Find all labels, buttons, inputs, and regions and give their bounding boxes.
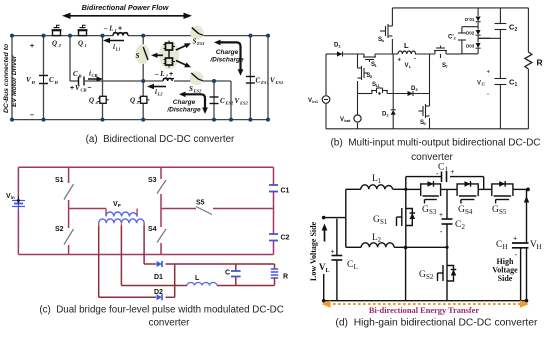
switch S3 S4 branch wire: [160, 167, 162, 254]
label S1: [371, 62, 378, 68]
transformer secondary: [99, 219, 144, 227]
svg-text:L2: L2: [157, 92, 164, 97]
svg-text:+: +: [451, 168, 455, 176]
svg-text:+: +: [169, 71, 173, 78]
label D'01: [465, 17, 475, 22]
diode D3: [408, 91, 414, 96]
svg-text:D'01: D'01: [465, 17, 475, 22]
switch S1: [64, 184, 74, 200]
transistor Q1: [78, 25, 88, 35]
label Charge/Discharge 2: [166, 99, 201, 114]
transistor Sb: [380, 24, 392, 38]
label SES1: [193, 38, 205, 47]
svg-text:2: 2: [378, 236, 382, 244]
svg-text:S1: S1: [380, 218, 388, 226]
label -L1+: [103, 25, 122, 34]
source Vbat: [354, 115, 361, 122]
wire secondary tap left: [98, 226, 100, 297]
svg-text:C: C: [220, 97, 225, 105]
label S3: [148, 177, 157, 184]
svg-text:–: –: [88, 85, 92, 92]
svg-text:H: H: [31, 80, 36, 85]
energy storage cell top: [164, 41, 176, 51]
wire right rail c: [273, 167, 275, 254]
svg-text:Bidirectional Power Flow: Bidirectional Power Flow: [82, 3, 170, 12]
diode D03: [476, 43, 481, 48]
label C2 d: [439, 211, 466, 236]
svg-text:C: C: [49, 76, 54, 84]
wire C'2 box: [462, 27, 478, 54]
label iL1: [113, 43, 121, 52]
caption (b): [330, 138, 540, 164]
wire left rail d: [323, 274, 325, 301]
transistor GS4: [457, 181, 478, 203]
current arrow iL1: [103, 38, 124, 43]
svg-text:C: C: [256, 77, 261, 85]
resistor R b: [525, 8, 532, 129]
wire S11 D3 rail: [358, 93, 430, 95]
svg-text:+: +: [398, 58, 402, 64]
node dots bottom rail: [10, 118, 270, 122]
svg-text:-: -: [414, 57, 416, 63]
svg-text:2: 2: [462, 223, 466, 231]
diode D'01: [476, 17, 481, 22]
svg-text:Q: Q: [130, 97, 135, 105]
svg-text:converter: converter: [411, 152, 453, 163]
svg-text:D02: D02: [466, 31, 475, 36]
label S5: [196, 200, 205, 207]
transistor GS2: [438, 262, 457, 284]
transistor Q3 branch wire: [142, 36, 144, 120]
svg-text:G: G: [419, 270, 426, 280]
svg-text:Side: Side: [498, 274, 513, 283]
minus mark Vc: [487, 92, 489, 98]
label Low Voltage Side: [309, 221, 318, 281]
svg-text:+: +: [118, 26, 122, 33]
transistor Q3: [139, 96, 150, 103]
charge discharge arrow 2: [179, 92, 208, 115]
capacitor CL branch: [336, 219, 338, 301]
wire bottom rail: [12, 119, 268, 121]
inductor L1: [113, 33, 128, 36]
svg-text:converter: converter: [149, 318, 191, 329]
svg-text:D1: D1: [154, 274, 163, 281]
label VP: [113, 201, 121, 208]
svg-text:L: L: [404, 41, 409, 50]
svg-text:/Discharge: /Discharge: [209, 57, 244, 64]
label Q4: [89, 97, 99, 106]
svg-text:(c) Dual bridge four-level pu: (c) Dual bridge four-level pulse width m…: [39, 305, 283, 316]
svg-text:C: C: [73, 70, 78, 78]
svg-text:bat: bat: [344, 118, 351, 123]
capacitor CES1: [246, 77, 255, 84]
label VES1: [270, 77, 283, 86]
label R c: [283, 274, 288, 281]
svg-text:L: L: [326, 268, 330, 274]
svg-text:L: L: [195, 275, 200, 282]
label C1 c: [281, 188, 290, 195]
svg-text:CB: CB: [81, 88, 87, 93]
svg-text:C1: C1: [281, 188, 290, 195]
wire secondary tap right: [143, 226, 145, 264]
arrow VL: [322, 224, 328, 242]
wire input vertical d: [345, 189, 347, 247]
svg-text:Q: Q: [52, 40, 57, 48]
arrow storage to SES1: [176, 43, 191, 50]
svg-text:EV Motor Driver: EV Motor Driver: [11, 55, 18, 107]
wire D2 line: [99, 296, 175, 298]
capacitor C2 b: [495, 24, 507, 30]
arrow VH: [524, 196, 529, 203]
label GS3: [422, 205, 437, 216]
wire vertical D1 D2 junction: [174, 264, 176, 297]
svg-text:Bi-directional Energy Transfer: Bi-directional Energy Transfer: [369, 306, 480, 315]
capacitor C2 d: [442, 219, 453, 224]
node dots d: [322, 188, 530, 303]
svg-text:1: 1: [378, 177, 382, 185]
caption (d): [335, 318, 538, 329]
label S7: [442, 63, 449, 69]
label Q3: [130, 97, 140, 106]
svg-text:G: G: [492, 205, 499, 215]
label Vc: [477, 81, 486, 87]
wire right rail d: [526, 189, 528, 300]
svg-text:H: H: [503, 243, 508, 251]
label C'2: [448, 35, 457, 41]
svg-text:in1: in1: [312, 99, 319, 104]
wire left rail: [11, 36, 13, 120]
svg-text:S4: S4: [465, 208, 473, 216]
transformer primary: [106, 209, 137, 217]
svg-text:P: P: [118, 203, 121, 208]
capacitor CH branch wire: [43, 36, 45, 120]
charge discharge arrow 1: [214, 40, 243, 76]
wire top rail c: [18, 166, 273, 168]
wire D1 line: [144, 263, 274, 265]
transistor S7: [434, 46, 447, 59]
capacitor CB: [79, 77, 85, 86]
wire C2 GS2 branch: [446, 189, 448, 300]
label Bi-directional Energy Transfer: [369, 306, 480, 315]
svg-text:ES2: ES2: [193, 89, 203, 94]
svg-text:– L: – L: [103, 25, 114, 33]
svg-text:Low Voltage Side: Low Voltage Side: [309, 221, 318, 281]
inductor L1 d: [346, 185, 406, 189]
wire top rail b: [392, 7, 528, 9]
arrow storage to SES2: [176, 61, 191, 68]
label GS4: [458, 205, 473, 216]
switch SES1 highlight: [190, 26, 204, 40]
arrow storage to S: [151, 53, 163, 58]
capacitor CES2: [210, 97, 219, 104]
svg-text:C: C: [225, 270, 230, 277]
caption (c): [39, 305, 283, 329]
transistor GS1: [397, 189, 416, 247]
label S0: [420, 120, 427, 126]
energy storage connecting wire: [168, 50, 170, 58]
svg-text:/Discharge: /Discharge: [166, 107, 201, 114]
diode D2: [391, 110, 396, 115]
svg-text:L: L: [354, 263, 358, 271]
svg-text:B: B: [78, 74, 82, 79]
wire left rail c: [17, 167, 19, 254]
capacitor CL: [332, 256, 343, 261]
bidirectional energy transfer arrow: [322, 300, 530, 308]
label L c: [195, 275, 200, 282]
wire bottom rail c: [18, 254, 273, 256]
svg-text:C2: C2: [281, 235, 290, 242]
wire CB branch: [70, 36, 143, 81]
inductor L c: [187, 283, 217, 286]
inductor L b: [398, 51, 416, 54]
label +VL-: [398, 57, 417, 70]
svg-text:C: C: [496, 240, 502, 250]
svg-text:S: S: [136, 52, 140, 60]
switch SES2 highlight: [190, 71, 204, 85]
wire mid vertical d: [405, 247, 407, 300]
capacitor CES1 branch wire: [249, 36, 251, 120]
label +VCB-: [70, 84, 92, 93]
svg-text:+: +: [439, 211, 443, 219]
svg-text:C: C: [347, 260, 353, 270]
svg-text:S3: S3: [148, 177, 157, 184]
wire secondary tap center: [120, 226, 122, 286]
svg-text:–: –: [30, 112, 34, 119]
svg-text:DC-Bus connected to: DC-Bus connected to: [3, 44, 10, 113]
switch SES2: [191, 73, 203, 81]
svg-text:+: +: [513, 234, 517, 243]
label C c: [225, 270, 230, 277]
label D1: [334, 43, 341, 49]
caption (a): [86, 134, 235, 145]
label S11: [372, 82, 381, 88]
svg-text:in: in: [11, 195, 15, 200]
svg-text:S: S: [193, 38, 197, 46]
wire VES2 branch: [230, 81, 232, 120]
plus mark CL: [331, 248, 335, 256]
svg-text:ES2: ES2: [239, 101, 249, 106]
minus mark VH: [30, 112, 34, 119]
label VH: [26, 76, 36, 85]
label High Voltage Side: [492, 257, 518, 283]
label CL: [347, 260, 358, 271]
label D3: [411, 86, 418, 92]
switch S4: [157, 229, 166, 243]
wire C2 C1 branch: [499, 8, 501, 129]
inductor L2 d: [346, 243, 447, 248]
wire C1 loop d: [406, 177, 484, 190]
title Bidirectional Power Flow: [82, 3, 170, 12]
svg-text:G: G: [458, 205, 465, 215]
svg-text:Charge: Charge: [216, 49, 239, 56]
svg-text:S5: S5: [196, 200, 205, 207]
label L2: [372, 233, 382, 244]
capacitor C1 b: [495, 79, 507, 85]
label R b: [537, 58, 543, 68]
label VH: [530, 240, 542, 251]
transistor Q2: [52, 25, 62, 35]
wire right rail: [267, 36, 269, 120]
node dots mid rail: [141, 79, 216, 83]
svg-text:V: V: [477, 81, 481, 87]
capacitor CH: [512, 243, 529, 301]
switch S highlight: [136, 44, 150, 64]
transistor S1: [363, 54, 376, 62]
label C1 b: [509, 78, 518, 89]
wire L line c: [121, 285, 274, 287]
svg-text:(a) Bidirectional DC-DC conve: (a) Bidirectional DC-DC converter: [86, 134, 235, 145]
wire L2 rail: [143, 80, 231, 82]
inductor L2: [163, 78, 174, 81]
svg-text:+: +: [70, 85, 74, 92]
diode D2 c: [157, 294, 163, 300]
node dots top rail: [10, 34, 270, 38]
capacitor CES2 branch wire: [213, 81, 215, 120]
svg-text:ES1: ES1: [196, 41, 205, 46]
svg-text:D2: D2: [154, 289, 163, 296]
energy storage cell bottom: [164, 58, 176, 68]
label CH: [496, 234, 518, 259]
current arrow iL2: [147, 84, 166, 89]
wire Vbat branch: [357, 54, 359, 129]
svg-text:1: 1: [515, 82, 518, 88]
svg-text:(b) Multi-input multi-output: (b) Multi-input multi-output bidirection…: [330, 138, 540, 149]
diode D02: [476, 30, 481, 35]
svg-text:Q: Q: [89, 97, 94, 105]
label VL: [319, 262, 330, 274]
svg-text:G: G: [373, 215, 380, 225]
wire D02 D03 to C2: [478, 37, 500, 39]
label GS2: [419, 270, 434, 281]
svg-text:S4: S4: [148, 226, 157, 233]
switch S2: [64, 229, 74, 245]
label C2 b: [509, 23, 518, 34]
label S1: [55, 177, 64, 184]
transistor GS5: [492, 181, 513, 203]
label C2 c: [281, 235, 290, 242]
plus mark Vc: [487, 70, 491, 76]
label GS1: [373, 215, 388, 226]
svg-text:ES1: ES1: [275, 80, 284, 85]
svg-text:1: 1: [115, 28, 117, 33]
capacitor C1 c: [269, 185, 278, 192]
label D03: [466, 44, 475, 49]
wire D2 branch: [392, 54, 394, 129]
label D1 c: [154, 274, 163, 281]
label iL2: [155, 88, 163, 97]
resistor R c: [271, 264, 278, 286]
source Vin: [12, 196, 25, 210]
source Vin1 branch: [325, 54, 327, 129]
svg-text:-: -: [487, 92, 489, 98]
label CB: [73, 70, 82, 79]
current arrow iCB: [88, 70, 103, 82]
label D2: [382, 112, 389, 118]
label S2: [367, 73, 374, 79]
label S4: [148, 226, 157, 233]
wire S0 branch: [429, 54, 431, 129]
svg-text:R: R: [283, 274, 288, 281]
svg-text:S: S: [189, 85, 193, 93]
label Q1: [78, 40, 87, 49]
svg-text:1: 1: [445, 166, 449, 174]
diode D1: [337, 52, 343, 57]
wire Sb branch: [391, 8, 393, 54]
label D02: [466, 31, 475, 36]
transistor S0: [419, 104, 430, 118]
svg-text:D03: D03: [466, 44, 475, 49]
svg-text:G: G: [422, 205, 429, 215]
label S: [136, 52, 140, 60]
label C1 d: [436, 163, 455, 178]
label CES2: [220, 97, 234, 106]
wire bottom rail d: [324, 300, 527, 302]
svg-text:S3: S3: [429, 208, 437, 216]
wire mid rail S5 c: [161, 208, 274, 210]
label DC-Bus connected to EV Motor Driver: [3, 44, 18, 113]
svg-text:(d) High-gain bidirectional D: (d) High-gain bidirectional DC-DC conver…: [335, 318, 538, 329]
svg-text:R: R: [537, 58, 543, 68]
svg-text:+: +: [487, 70, 491, 76]
svg-text:+: +: [331, 248, 335, 256]
capacitor C'2: [458, 33, 466, 40]
wire switch row d: [406, 188, 528, 190]
svg-text:Charge: Charge: [173, 99, 196, 106]
label L b: [404, 41, 409, 50]
label D2 c: [154, 289, 163, 296]
svg-text:L1: L1: [115, 47, 121, 52]
switch SES1: [192, 28, 204, 36]
wire VL top: [324, 217, 346, 219]
label -L2+: [154, 70, 173, 79]
wire bottom rail b: [326, 128, 528, 130]
label Charge/Discharge 1: [209, 49, 244, 64]
label S2: [55, 226, 64, 233]
label Vin1: [308, 98, 319, 104]
capacitor C c: [231, 271, 241, 277]
switch S1 branch wire: [68, 167, 70, 254]
label GS5: [492, 205, 507, 216]
transistor Q4: [98, 96, 109, 103]
capacitor C2 c: [269, 234, 278, 241]
svg-text:Q: Q: [78, 40, 83, 48]
label SES2: [189, 85, 202, 94]
label Q2: [52, 40, 62, 49]
switch S3: [157, 180, 166, 194]
svg-text:C: C: [438, 163, 444, 173]
energy storage highlight: [159, 41, 179, 70]
transistor GS3: [421, 181, 441, 203]
svg-text:ES2: ES2: [225, 101, 235, 106]
svg-text:2: 2: [515, 27, 518, 33]
capacitor CH: [39, 76, 48, 84]
source Vin1: [322, 96, 330, 104]
label VES2: [235, 97, 249, 106]
label CES1: [256, 77, 269, 86]
svg-text:S1: S1: [55, 177, 64, 184]
diode D1 c: [157, 261, 163, 267]
svg-text:S5: S5: [499, 208, 507, 216]
wire main rail b: [326, 53, 462, 55]
capacitor C branch c: [235, 264, 237, 286]
bidirectional power flow arrow: [62, 13, 192, 19]
switch S5: [196, 207, 212, 215]
svg-text:– L: – L: [154, 70, 165, 78]
svg-text:C: C: [455, 220, 461, 230]
wire diode stack: [477, 8, 479, 54]
capacitor C1 d: [442, 172, 447, 183]
wire mid rail left c: [69, 208, 106, 210]
